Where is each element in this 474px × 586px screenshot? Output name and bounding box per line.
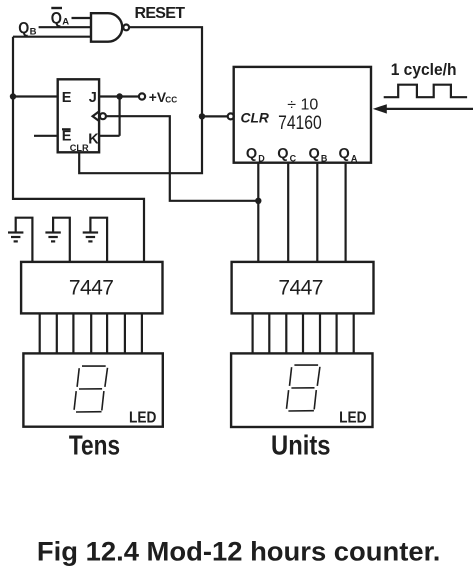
wire QD output (257, 163, 259, 262)
svg-text:+V: +V (149, 90, 167, 105)
svg-text:÷ 10: ÷ 10 (287, 97, 318, 114)
svg-text:A: A (351, 154, 358, 164)
ground symbol 1 (8, 233, 23, 242)
svg-text:RESET: RESET (135, 5, 186, 22)
flip-flop U2 (JK) (58, 79, 99, 152)
wire QA output (345, 163, 347, 262)
svg-text:LED: LED (129, 410, 156, 427)
svg-text:Q: Q (309, 146, 320, 162)
seven-segment digit units (287, 365, 320, 411)
overbar of E-bar (62, 128, 71, 130)
wire E feedback rail (left side) (13, 37, 144, 262)
ground symbol 2 (45, 233, 60, 242)
svg-text:CC: CC (165, 96, 177, 105)
clock bubble (100, 113, 106, 119)
svg-text:Tens: Tens (69, 430, 120, 461)
svg-text:D: D (258, 154, 265, 164)
wire tens pin3 to ground loop (90, 218, 107, 262)
wire clock input arrow line (385, 108, 473, 110)
74160 CLR bubble (228, 113, 234, 119)
wire QC output (287, 163, 289, 262)
+Vcc terminal (139, 93, 145, 99)
svg-text:7447: 7447 (69, 276, 114, 299)
node QD junction (255, 198, 261, 204)
svg-text:K: K (88, 131, 99, 147)
nand output bubble (123, 25, 129, 31)
wire QB output (316, 163, 318, 262)
wire third NAND input from E rail (13, 36, 92, 38)
svg-text:Q: Q (277, 146, 288, 162)
svg-text:B: B (321, 154, 328, 164)
svg-text:A: A (62, 16, 69, 27)
seven-segment digit tens (74, 366, 107, 412)
svg-text:E: E (62, 90, 72, 106)
svg-text:J: J (89, 90, 97, 106)
node E junction (10, 93, 16, 99)
svg-text:Q: Q (246, 146, 257, 162)
node J/K junction (116, 93, 122, 99)
svg-text:Q: Q (339, 146, 350, 162)
wire tens pin2 to ground loop (53, 218, 70, 262)
svg-text:7447: 7447 (278, 276, 323, 299)
svg-text:CLR: CLR (241, 110, 269, 125)
wire junction to 74160 CLR (202, 115, 228, 117)
node RESET/CLR junction (199, 113, 205, 119)
ground symbol 3 (83, 233, 98, 242)
clock waveform symbol (384, 85, 467, 98)
decoder U5 7447 units (232, 262, 374, 314)
svg-text:C: C (290, 154, 297, 164)
wire RESET from NAND to CLR column (79, 27, 202, 173)
svg-text:CLR: CLR (70, 143, 89, 153)
svg-text:Q: Q (51, 9, 62, 27)
arrowhead into 74160 (373, 104, 387, 113)
decoder U4 7447 tens (21, 262, 162, 314)
svg-text:74160: 74160 (278, 113, 322, 134)
wires 7447 tens to LED (7 lines) (40, 313, 142, 353)
wire QA-bar input stub to NAND (72, 17, 93, 19)
display DS2 LED units box (231, 353, 372, 427)
svg-text:Units: Units (271, 429, 331, 460)
wire J to K vertical (118, 97, 120, 136)
svg-text:Q: Q (18, 20, 29, 37)
wire K (99, 135, 120, 137)
wire J,K tie to Vcc (99, 95, 139, 97)
svg-text:1 cycle/h: 1 cycle/h (391, 60, 457, 79)
nand gate U1 (91, 13, 122, 42)
node QA-bar label (51, 9, 70, 27)
wire E-bar stub (34, 135, 58, 137)
wires 7447 units to LED (7 lines) (253, 313, 354, 353)
display DS1 LED tens box (23, 353, 162, 426)
overbar of QA (51, 7, 62, 9)
clock triangle of flip-flop (93, 111, 100, 121)
svg-text:LED: LED (339, 410, 366, 427)
wire E to flip-flop (13, 95, 58, 97)
node QB label (18, 20, 36, 37)
svg-text:Fig 12.4 Mod-12 hours counter.: Fig 12.4 Mod-12 hours counter. (37, 536, 441, 567)
wire clock input from QD (106, 116, 259, 201)
wire tens pin1 to ground loop (16, 218, 33, 262)
wire QB input stub to NAND (39, 26, 92, 28)
counter U3 74160 (234, 67, 371, 163)
